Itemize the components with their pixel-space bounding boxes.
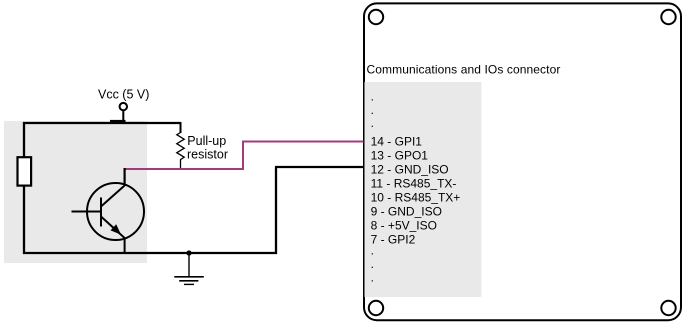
svg-text:.: .	[371, 243, 374, 257]
screw hole top-left	[369, 10, 383, 24]
svg-text:Vcc (5 V): Vcc (5 V)	[98, 87, 149, 101]
screw hole bottom-right	[661, 301, 675, 315]
transistor Q1 (NPN)	[72, 183, 145, 254]
pull-up resistor R2 (zigzag)	[177, 122, 184, 169]
pin list background	[365, 82, 482, 297]
svg-text:11 - RS485_TX-: 11 - RS485_TX-	[371, 176, 457, 190]
svg-text:8 - +5V_ISO: 8 - +5V_ISO	[371, 218, 437, 232]
resistor R1 (box symbol on left branch)	[18, 157, 32, 185]
screw hole top-right	[661, 10, 675, 24]
svg-text:9 - GND_ISO: 9 - GND_ISO	[371, 204, 442, 218]
svg-text:7 - GPI2: 7 - GPI2	[371, 232, 416, 246]
screw hole bottom-left	[369, 301, 383, 315]
svg-text:10 - RS485_TX+: 10 - RS485_TX+	[371, 190, 461, 204]
connector body U1 (Communications and IOs connector)	[364, 3, 681, 320]
wire: bottom rail	[23, 252, 277, 254]
wire: vertical up to pin 12 level	[275, 167, 277, 254]
svg-text:.: .	[371, 103, 374, 117]
svg-text:.: .	[371, 90, 374, 104]
svg-text:resistor: resistor	[187, 147, 228, 161]
ground symbol	[174, 253, 204, 284]
wire: left branch vertical	[23, 122, 25, 254]
svg-text:.: .	[371, 116, 374, 130]
wire: horizontal into pin 12 GND_ISO	[275, 166, 364, 168]
svg-text:12 - GND_ISO: 12 - GND_ISO	[371, 162, 449, 176]
left circuit shaded panel	[4, 121, 147, 263]
Vcc (5 V) supply symbol	[110, 103, 127, 121]
wire: collector vertical stub	[123, 168, 125, 186]
junction dot at ground tap	[186, 250, 191, 255]
wire: top rail from left branch to pull-up resistor	[23, 122, 181, 124]
svg-text:Communications and IOs connect: Communications and IOs connector	[367, 62, 561, 76]
svg-text:.: .	[371, 257, 374, 271]
wire (signal, magenta): horizontal into pin 14 GPI1	[242, 141, 364, 143]
wire (signal, magenta): collector to corner	[125, 168, 243, 170]
svg-text:13 - GPO1: 13 - GPO1	[371, 148, 429, 162]
wire (signal, magenta): vertical riser	[242, 142, 244, 171]
svg-text:.: .	[371, 270, 374, 284]
svg-text:14 - GPI1: 14 - GPI1	[371, 134, 423, 148]
svg-text:Pull-up: Pull-up	[187, 134, 226, 148]
